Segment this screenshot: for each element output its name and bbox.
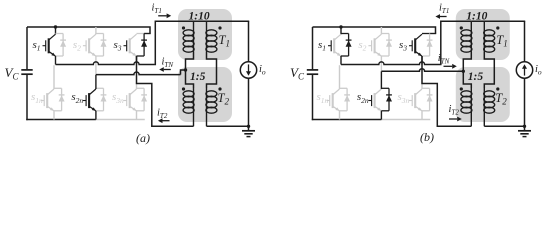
wire s2n cell top (a) bbox=[96, 87, 104, 89]
wire s2 cell bottom (a) bbox=[96, 55, 104, 57]
arrow i_T2 (a) bbox=[163, 120, 170, 122]
wire source column top (b) bbox=[524, 21, 526, 62]
diode s1 (b) bbox=[346, 34, 352, 57]
svg-text:io: io bbox=[259, 64, 266, 77]
transistor s3n (b) bbox=[409, 89, 422, 111]
transistor s2n (a) bbox=[83, 89, 96, 111]
transistor s3n (a) bbox=[124, 89, 137, 111]
svg-text:1:5: 1:5 bbox=[468, 71, 484, 83]
diode s1 (a) bbox=[60, 34, 66, 57]
wire s2 cell bottom (b) bbox=[381, 55, 389, 57]
wire C phase to T2 (b) bbox=[422, 56, 471, 126]
transistor s3 (b) bbox=[409, 34, 422, 56]
transformer T2 secondary dot (b) bbox=[496, 87, 499, 90]
transformer T2 primary winding (b) bbox=[470, 88, 472, 91]
wire B phase to junction (b) bbox=[381, 69, 463, 72]
wire s2n cell bottom (a) bbox=[96, 110, 104, 112]
wire top rail (a) bbox=[27, 27, 150, 34]
transistor s1 (b) bbox=[328, 34, 341, 56]
transformer T2 secondary dot (a) bbox=[218, 87, 221, 90]
transformer T1 primary dot (b) bbox=[460, 26, 463, 29]
transformer T1 primary dot (a) bbox=[182, 26, 185, 29]
current source i_o (a) bbox=[240, 62, 256, 78]
svg-text:(a): (a) bbox=[136, 131, 150, 145]
svg-text:s2: s2 bbox=[73, 39, 81, 53]
wire s1n cell bottom (a) bbox=[54, 110, 62, 112]
wire bottom rail gray segment (a) bbox=[96, 119, 145, 121]
transformer T2 secondary winding (a) bbox=[206, 88, 208, 91]
node s1 top junction (b) bbox=[339, 25, 342, 28]
wire s3n collector stub gray (a) bbox=[136, 84, 138, 90]
diode s2 (a) bbox=[101, 34, 107, 57]
wire A phase node to T1 (b) bbox=[341, 62, 440, 65]
transformer T1 background (a) bbox=[178, 9, 232, 60]
ground (a) bbox=[242, 126, 255, 136]
wire T2 secondary bottom (a) bbox=[207, 125, 249, 127]
transistor s2 (a) bbox=[83, 34, 96, 56]
wire s2n cell bottom (b) bbox=[381, 110, 389, 112]
svg-text:iTN: iTN bbox=[162, 56, 174, 69]
wire s2 collector lead (a) bbox=[95, 27, 97, 34]
wire bottom rail gray segment (b) bbox=[381, 119, 430, 121]
wire left vertical (a) bbox=[26, 27, 28, 69]
current source i_o (b) bbox=[516, 62, 532, 78]
wire source column top (a) bbox=[248, 21, 250, 62]
wire s2n collector lead (b) bbox=[380, 71, 382, 89]
wire bottom rail (b) bbox=[312, 119, 382, 121]
svg-text:s1: s1 bbox=[33, 39, 41, 53]
wire s3n cell bottom (a) bbox=[137, 110, 145, 112]
transformer T2 primary dot (a) bbox=[182, 87, 185, 90]
transistor s1n (b) bbox=[327, 89, 340, 111]
wire s3n collector stub gray (b) bbox=[421, 84, 423, 90]
wire A phase node to T1 (a) bbox=[56, 62, 155, 65]
capacitor V_C (a) bbox=[21, 69, 32, 71]
wire source column bottom (a) bbox=[248, 78, 250, 126]
wire s2 collector lead (b) bbox=[380, 27, 382, 34]
diode s2 (b) bbox=[386, 34, 392, 57]
transformer T1 secondary winding (a) bbox=[206, 21, 208, 30]
wire s1 collector lead (a) bbox=[55, 27, 57, 34]
node ground junction (b) bbox=[523, 125, 526, 128]
transformer T1 secondary dot (b) bbox=[496, 26, 499, 29]
arrow i_T2 (b) bbox=[449, 118, 457, 120]
arrow i_T1 (a) bbox=[158, 15, 166, 17]
transistor s2 (b) bbox=[368, 34, 381, 56]
wire s1n cell top (b) bbox=[340, 87, 348, 89]
arrow i_T1 (b) bbox=[440, 16, 447, 18]
transformer T2 primary dot (b) bbox=[460, 87, 463, 90]
svg-text:VC: VC bbox=[5, 65, 20, 82]
diode s3n (a) bbox=[141, 88, 147, 111]
wire s3n cell top (a) bbox=[137, 87, 145, 89]
svg-text:io: io bbox=[535, 64, 542, 77]
wire s2n collector lead (a) bbox=[95, 75, 97, 89]
node s1 top junction (a) bbox=[54, 25, 57, 28]
transformer T2 background (b) bbox=[456, 67, 510, 122]
wire T2 secondary bottom (b) bbox=[484, 125, 524, 127]
wire s3 cell bottom (a) bbox=[137, 55, 145, 57]
wire s3 cell top right (a) bbox=[144, 33, 151, 35]
wire s3 cell top right (b) bbox=[430, 33, 437, 35]
wire T1 secondary bottom to T2 (a) bbox=[207, 52, 217, 88]
ground (b) bbox=[518, 126, 531, 136]
wire s3 cell top (b) bbox=[422, 33, 430, 35]
svg-text:s3n: s3n bbox=[112, 91, 124, 105]
diode s1n (a) bbox=[59, 88, 65, 111]
node ground junction (a) bbox=[247, 125, 250, 128]
wire s3 cell bottom (b) bbox=[422, 55, 430, 57]
svg-text:iT1: iT1 bbox=[152, 3, 162, 16]
wire s1 cell top (a) bbox=[56, 33, 64, 35]
wire s2 emitter lead gray (a) bbox=[95, 56, 97, 74]
wire T1 secondary bottom to T2 (b) bbox=[484, 52, 494, 88]
wire s2n emitter to rail (a) bbox=[95, 111, 97, 120]
transistor s1 (a) bbox=[43, 34, 56, 56]
svg-text:s1n: s1n bbox=[31, 91, 43, 105]
wire T1 primary bottom to node N (b) bbox=[463, 52, 471, 88]
svg-text:s3: s3 bbox=[399, 39, 407, 53]
wire s1n collector lead gray (a) bbox=[53, 65, 55, 89]
wire C phase to T2 (a) bbox=[137, 56, 194, 126]
wire s3 cell top (a) bbox=[137, 33, 145, 35]
svg-text:VC: VC bbox=[290, 65, 305, 82]
transformer T2 secondary winding (b) bbox=[483, 88, 485, 91]
wire s1n collector lead gray (b) bbox=[339, 65, 341, 89]
svg-text:s1n: s1n bbox=[317, 91, 329, 105]
node N junction dot (a) bbox=[184, 68, 187, 71]
wire left vertical lower (b) bbox=[312, 75, 314, 120]
wire s3 emitter lead (b) bbox=[421, 56, 423, 65]
node N junction dot (b) bbox=[462, 70, 465, 73]
svg-text:iT1: iT1 bbox=[439, 3, 449, 16]
transformer T1 primary winding (b) bbox=[470, 21, 472, 30]
svg-text:s2: s2 bbox=[358, 39, 366, 53]
wire s1n cell top (a) bbox=[54, 87, 62, 89]
wire s1 cell bottom (b) bbox=[341, 55, 349, 57]
wire source column bottom (b) bbox=[524, 78, 526, 126]
svg-text:s2n: s2n bbox=[71, 91, 83, 105]
diode s2n (a) bbox=[101, 88, 107, 111]
diode s1n (b) bbox=[344, 88, 350, 111]
svg-text:1:5: 1:5 bbox=[190, 71, 206, 83]
wire B phase to junction (a) bbox=[96, 72, 181, 75]
diode s3 (b) bbox=[427, 34, 433, 57]
diode s3n (b) bbox=[427, 88, 433, 111]
wire s1 emitter lead (a) bbox=[55, 56, 57, 65]
wire left vertical lower (a) bbox=[26, 75, 28, 120]
wire s1 cell top (b) bbox=[341, 33, 349, 35]
diode s2n (b) bbox=[386, 88, 392, 111]
wire s3 emitter lead (a) bbox=[136, 56, 138, 65]
wire T1 primary bottom to node N (a) bbox=[186, 52, 194, 88]
transformer T1 background (b) bbox=[456, 9, 510, 60]
transistor s2n (b) bbox=[368, 89, 381, 111]
capacitor V_C (b) bbox=[307, 69, 318, 71]
svg-text:iTN: iTN bbox=[438, 53, 450, 66]
wire s1n cell bottom (b) bbox=[340, 110, 348, 112]
arrow i_TN (b) bbox=[444, 65, 453, 67]
svg-text:(b): (b) bbox=[420, 130, 434, 144]
transistor s1n (a) bbox=[41, 89, 54, 111]
wire s3n cell bottom (b) bbox=[422, 110, 430, 112]
transistor s3 (a) bbox=[124, 34, 137, 56]
wire T1 top to source (b) bbox=[471, 20, 525, 22]
svg-text:1:10: 1:10 bbox=[189, 11, 210, 23]
wire s1 emitter lead (b) bbox=[340, 56, 342, 65]
wire top rail (b) bbox=[313, 27, 436, 34]
diode s3 (a) bbox=[141, 34, 147, 57]
svg-text:s1: s1 bbox=[318, 39, 326, 53]
transformer T2 background (a) bbox=[178, 67, 232, 122]
wire s2 emitter lead gray (b) bbox=[380, 56, 382, 71]
transformer T1 secondary dot (a) bbox=[218, 26, 221, 29]
transformer T1 primary winding (a) bbox=[193, 21, 195, 30]
svg-text:iT2: iT2 bbox=[157, 108, 168, 121]
svg-text:1:10: 1:10 bbox=[466, 11, 487, 23]
wire s2n emitter to rail (b) bbox=[380, 111, 382, 120]
transformer T2 primary winding (a) bbox=[193, 88, 195, 91]
wire s2 cell top (b) bbox=[381, 33, 389, 35]
wire bottom rail (a) bbox=[26, 119, 96, 121]
wire s1 cell bottom (a) bbox=[56, 55, 64, 57]
svg-text:s2n: s2n bbox=[357, 91, 369, 105]
wire s2n cell top (b) bbox=[381, 87, 389, 89]
transformer T1 secondary winding (b) bbox=[483, 21, 485, 30]
wire s1 collector lead (b) bbox=[340, 27, 342, 34]
wire s3n cell top (b) bbox=[422, 87, 430, 89]
wire left vertical (b) bbox=[312, 27, 314, 69]
svg-text:s3n: s3n bbox=[398, 91, 410, 105]
svg-text:s3: s3 bbox=[114, 39, 122, 53]
arrow i_TN (a) bbox=[164, 69, 171, 71]
wire T1 top to source (a) bbox=[194, 20, 250, 22]
wire s2 cell top (a) bbox=[96, 33, 104, 35]
